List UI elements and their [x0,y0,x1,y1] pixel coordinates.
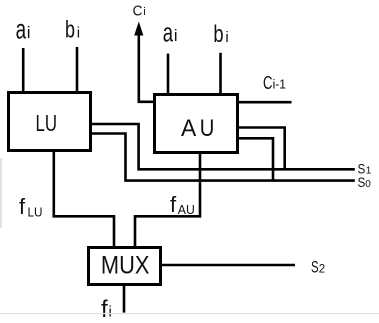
wire S0 bus into LU [92,134,355,181]
svg-text:0: 0 [365,179,371,190]
wire S0 branch to AU [239,138,273,180]
wire bi to AU [219,53,222,94]
svg-text:i: i [77,25,80,42]
svg-text:LU: LU [28,205,43,220]
svg-text:f: f [170,192,177,217]
svg-text:AU: AU [178,202,195,217]
svg-text:b: b [65,16,75,43]
wire ai to AU [167,54,170,94]
wire S1 branch to AU [239,128,285,170]
svg-text:i: i [27,23,31,42]
scan artifact bottom line [0,313,379,315]
svg-text:a: a [163,18,174,48]
box LU [9,93,91,151]
svg-text:U: U [200,115,215,142]
box MUX [89,248,161,285]
svg-text:2: 2 [319,263,325,275]
svg-text:a: a [16,14,27,45]
svg-text:i: i [109,304,112,321]
svg-text:i: i [225,29,228,46]
wire bi to LU [76,47,79,91]
scan artifact left edge [0,158,2,228]
svg-text:i: i [174,27,178,45]
svg-text:S: S [311,258,319,276]
svg-text:LU: LU [36,110,58,136]
svg-text:1: 1 [366,165,372,176]
svg-text:C: C [133,3,143,20]
wire Ci from AU with arrow [139,33,153,102]
wire S2 to MUX [162,264,295,267]
box AU [155,95,238,153]
svg-text:i: i [143,6,145,18]
wire fi output of MUX [123,286,126,313]
svg-text:f: f [101,296,108,323]
svg-text:A: A [181,115,197,142]
svg-text:C: C [263,72,273,93]
wire Ci-1 into AU [239,101,292,104]
svg-text:i-1: i-1 [273,77,286,92]
svg-text:f: f [19,194,26,219]
wire fLU from LU to MUX [54,152,114,246]
wire S1 bus into LU [92,124,355,169]
svg-text:MUX: MUX [101,252,150,280]
wire fAU from AU to MUX [135,154,200,246]
svg-text:b: b [213,21,223,48]
wire ai to LU [22,48,25,91]
svg-text:S: S [358,175,366,190]
